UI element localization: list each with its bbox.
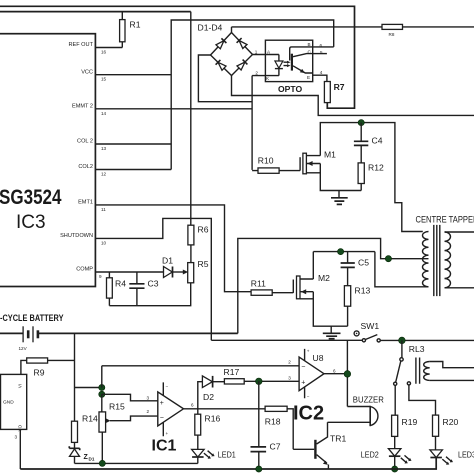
- capacitor C5: [341, 252, 370, 286]
- svg-text:GND: GND: [3, 400, 14, 406]
- wire pin16 row: [95, 47, 122, 49]
- svg-text:D2: D2: [203, 392, 214, 402]
- svg-text:C3: C3: [148, 279, 159, 289]
- wire SW1 row from shutdown vertical: [211, 339, 362, 341]
- svg-text:R18: R18: [265, 417, 281, 427]
- svg-text:10: 10: [101, 240, 107, 245]
- wire opto pin4 to R7: [313, 75, 327, 81]
- svg-text:M1: M1: [324, 150, 336, 160]
- wire opto pin5 stub: [313, 53, 327, 55]
- core: [434, 225, 440, 296]
- node lower junction: [99, 391, 105, 397]
- zener ZD1: [69, 446, 95, 463]
- diode LR of bridge: [237, 62, 245, 70]
- svg-text:VI: VI: [18, 384, 23, 388]
- svg-text:D1-D4: D1-D4: [198, 23, 223, 33]
- svg-text:R10: R10: [258, 156, 274, 166]
- buzzer: [328, 394, 384, 426]
- wire opto K row: [252, 75, 279, 77]
- svg-text:COL 2: COL 2: [77, 139, 93, 145]
- wire M2 source row: [313, 292, 347, 327]
- bridge rectifier D1-D4: [198, 23, 253, 76]
- svg-text:2: 2: [255, 70, 258, 75]
- diode UL of bridge: [216, 41, 224, 49]
- capacitor C4: [354, 123, 383, 163]
- wire top rail 2: [0, 11, 191, 13]
- svg-text:+: +: [166, 431, 169, 436]
- relay RL3 contacts: [394, 340, 411, 385]
- wire bottom rail B: [20, 458, 436, 470]
- mosfet M2: [293, 273, 330, 299]
- wire pin 13 row: [95, 143, 171, 145]
- preset R15: [99, 394, 158, 463]
- resistor R20: [433, 415, 459, 450]
- wire supply rail to IC2 pin2: [102, 366, 299, 388]
- transistor TR1: [293, 422, 346, 469]
- node C5 junction: [338, 249, 344, 255]
- diode LL of bridge: [218, 62, 226, 70]
- relay RL3 coil: [409, 344, 474, 384]
- svg-text:IC1: IC1: [152, 438, 177, 455]
- svg-text:M2: M2: [318, 273, 330, 283]
- node rail A junction: [99, 460, 105, 466]
- svg-text:13: 13: [101, 146, 107, 151]
- svg-text:LED3: LED3: [458, 450, 474, 460]
- svg-text:9: 9: [99, 274, 102, 279]
- svg-text:SHUTDOWN: SHUTDOWN: [60, 233, 93, 239]
- IC3 labels: [0, 186, 62, 233]
- LED3: [430, 450, 474, 470]
- resistor R1: [120, 12, 141, 48]
- pin numbers IC3: [99, 50, 107, 280]
- wire pin 14 row: [95, 108, 252, 110]
- svg-text:3: 3: [147, 395, 150, 400]
- svg-text:R13: R13: [355, 286, 371, 296]
- wire transformer primary bottom to M2 rail: [375, 252, 429, 287]
- wire R4/C3/R5 bottom row: [109, 283, 190, 306]
- opto box: [265, 40, 312, 81]
- svg-text:R17: R17: [224, 367, 240, 377]
- resistor R13: [344, 286, 370, 327]
- wire bridge AC1 (left vertex) down-around: [198, 55, 252, 102]
- svg-text:CENTRE TAPPED: CENTRE TAPPED: [416, 215, 474, 225]
- svg-text:R6: R6: [198, 225, 209, 235]
- svg-text:R11: R11: [251, 279, 266, 289]
- svg-text:R20: R20: [443, 417, 459, 427]
- svg-text:E: E: [307, 75, 310, 80]
- opto phototransistor: [290, 47, 313, 73]
- wire M1 drain riser + drain rail y122.6: [320, 123, 423, 232]
- secondary winding: [445, 232, 451, 288]
- LED2: [361, 449, 412, 469]
- resistor R12: [358, 163, 384, 191]
- svg-text:6: 6: [191, 402, 194, 407]
- svg-text:EMMT 2: EMMT 2: [72, 104, 93, 110]
- svg-text:R14: R14: [82, 414, 98, 424]
- wire T row to dots: [75, 387, 102, 389]
- svg-text:−: −: [301, 364, 305, 371]
- regulator box (GND): [1, 374, 27, 469]
- wire bridge top to R8 rail: [232, 27, 383, 33]
- svg-text:14: 14: [101, 111, 107, 116]
- node top junction: [99, 384, 105, 390]
- resistor R16: [195, 409, 221, 450]
- svg-text:+: +: [307, 349, 310, 354]
- resistor R14: [72, 414, 98, 449]
- wire DC- rail (bridge bottom to right edge): [232, 76, 474, 116]
- svg-text:IC3: IC3: [16, 212, 46, 233]
- wire opto K / pin14 / R10 vertical: [251, 76, 253, 170]
- svg-text:3: 3: [15, 435, 18, 440]
- svg-text:12: 12: [101, 172, 107, 177]
- wire bridge right vertex to opto anode: [253, 54, 279, 56]
- svg-text:EMT1: EMT1: [78, 200, 93, 206]
- svg-text:12V: 12V: [19, 346, 28, 351]
- wire IC2 output riser to SW1 row: [324, 340, 347, 406]
- wire pin 11 row to R11: [95, 205, 251, 292]
- svg-text:R8: R8: [389, 32, 395, 37]
- svg-text:11: 11: [101, 207, 106, 212]
- opto light arrows: [284, 62, 289, 65]
- svg-text:COMP: COMP: [76, 267, 93, 273]
- capacitor C7: [251, 381, 281, 469]
- wire relay NC contact to R20: [409, 385, 436, 415]
- svg-text:B: B: [308, 42, 311, 47]
- svg-text:C5: C5: [358, 258, 369, 268]
- svg-text:−: −: [160, 415, 164, 422]
- wire M2 drain riser: [312, 252, 314, 279]
- wire shutdown row to SW1: [95, 218, 211, 340]
- svg-text:IC2: IC2: [293, 403, 324, 425]
- svg-text:VCC: VCC: [81, 69, 93, 75]
- svg-text:−: −: [166, 384, 169, 389]
- svg-text:SW1: SW1: [361, 321, 380, 331]
- svg-text:D1: D1: [89, 457, 95, 462]
- resistor R18: [265, 406, 293, 449]
- node SW1 junction: [399, 337, 406, 344]
- svg-text:R4: R4: [115, 279, 126, 289]
- svg-text:OPTO: OPTO: [278, 84, 303, 94]
- svg-text:COL2: COL2: [78, 164, 93, 170]
- wire opto pin6 stub: [313, 46, 334, 48]
- wire IC1 output row / R18 row: [184, 408, 266, 410]
- svg-text:C7: C7: [270, 442, 281, 452]
- resistor R19: [392, 385, 418, 448]
- wire VCC row: [95, 74, 171, 76]
- wire rail A (zener/R15/LED1): [75, 462, 198, 464]
- svg-text:RL3: RL3: [409, 344, 425, 354]
- wire pin 12 row: [95, 169, 171, 171]
- svg-text:LED1: LED1: [218, 450, 236, 460]
- node C7 bottom: [256, 466, 262, 472]
- resistor R10: [252, 156, 300, 174]
- svg-text:3: 3: [288, 375, 291, 380]
- transformer T1 centre tapped: [416, 215, 474, 297]
- svg-text:BUZZER: BUZZER: [353, 394, 384, 404]
- diode D1: [162, 256, 188, 278]
- primary winding: [423, 232, 429, 287]
- node LED2 bottom: [392, 466, 398, 472]
- resistor R17: [224, 367, 300, 384]
- node R17/C7/IC2 pin3 junction: [255, 378, 262, 385]
- wire M1 source row: [320, 164, 361, 191]
- diode D2: [198, 376, 225, 409]
- svg-text:+: +: [160, 400, 164, 407]
- svg-text:6: 6: [333, 368, 336, 373]
- svg-text:TR1: TR1: [330, 434, 346, 444]
- switch SW1: [354, 321, 474, 342]
- svg-text:1: 1: [255, 49, 258, 54]
- opto pin letters/numbers: [255, 42, 323, 81]
- ground (M1 source): [331, 191, 348, 205]
- op-amp IC1: [147, 382, 195, 454]
- svg-text:2: 2: [288, 359, 291, 364]
- svg-text:-CYCLE BATTERY: -CYCLE BATTERY: [0, 312, 64, 323]
- node C4 junction: [358, 120, 364, 126]
- svg-text:4: 4: [320, 70, 323, 75]
- node centre tap junction: [385, 256, 391, 262]
- capacitor C3: [129, 272, 158, 306]
- resistor R6: [188, 225, 209, 263]
- pin-9 COMP row: [95, 271, 163, 273]
- svg-text:R9: R9: [34, 368, 45, 378]
- svg-text:R7: R7: [334, 82, 345, 92]
- svg-text:REF OUT: REF OUT: [68, 42, 93, 48]
- svg-text:16: 16: [101, 50, 107, 55]
- svg-text:SG3524: SG3524: [0, 186, 62, 209]
- svg-text:R12: R12: [368, 163, 384, 173]
- wire rail2 vertical down to R6 top: [190, 12, 192, 226]
- wire battery drop to R14: [74, 333, 76, 421]
- wire M2 drain rail: [313, 251, 375, 253]
- svg-text:15: 15: [101, 77, 107, 82]
- diode UR of bridge: [239, 41, 247, 49]
- node IC2 output junction: [344, 371, 351, 378]
- svg-text:R5: R5: [198, 259, 209, 269]
- IC3 box: [0, 34, 95, 287]
- resistor R4: [107, 272, 127, 306]
- resistor R7: [324, 82, 344, 103]
- svg-text:+: +: [301, 379, 305, 386]
- svg-text:R1: R1: [130, 20, 141, 30]
- svg-text:−: −: [307, 394, 310, 399]
- svg-text:C4: C4: [372, 136, 383, 146]
- ground (M2 source): [323, 326, 341, 339]
- wire R8 to right edge: [403, 26, 474, 28]
- wire centre tap from battery: [238, 238, 429, 333]
- svg-text:U8: U8: [313, 353, 324, 363]
- svg-text:R16: R16: [205, 414, 221, 424]
- LED1: [192, 449, 236, 463]
- svg-text:R19: R19: [402, 417, 418, 427]
- op-amp IC2 (U8): [288, 349, 336, 425]
- mosfet M1: [300, 150, 336, 174]
- svg-text:R15: R15: [109, 402, 125, 412]
- resistor R8: [382, 24, 403, 36]
- wire rail 3 (pins 12/13 to opto pin6): [171, 20, 334, 170]
- svg-text:LED2: LED2: [361, 450, 379, 460]
- wire to IC1 pin3: [102, 394, 158, 401]
- resistor R11: [251, 279, 293, 296]
- opto LED: [275, 55, 291, 76]
- battery 12V: [0, 312, 238, 351]
- svg-text:2: 2: [147, 409, 150, 414]
- preset R5: [188, 259, 209, 283]
- resistor R9: [21, 358, 75, 378]
- svg-text:D1: D1: [162, 256, 173, 266]
- wire top rail 1 to R7 bottom: [0, 6, 355, 108]
- pin labels IC3: [60, 42, 94, 273]
